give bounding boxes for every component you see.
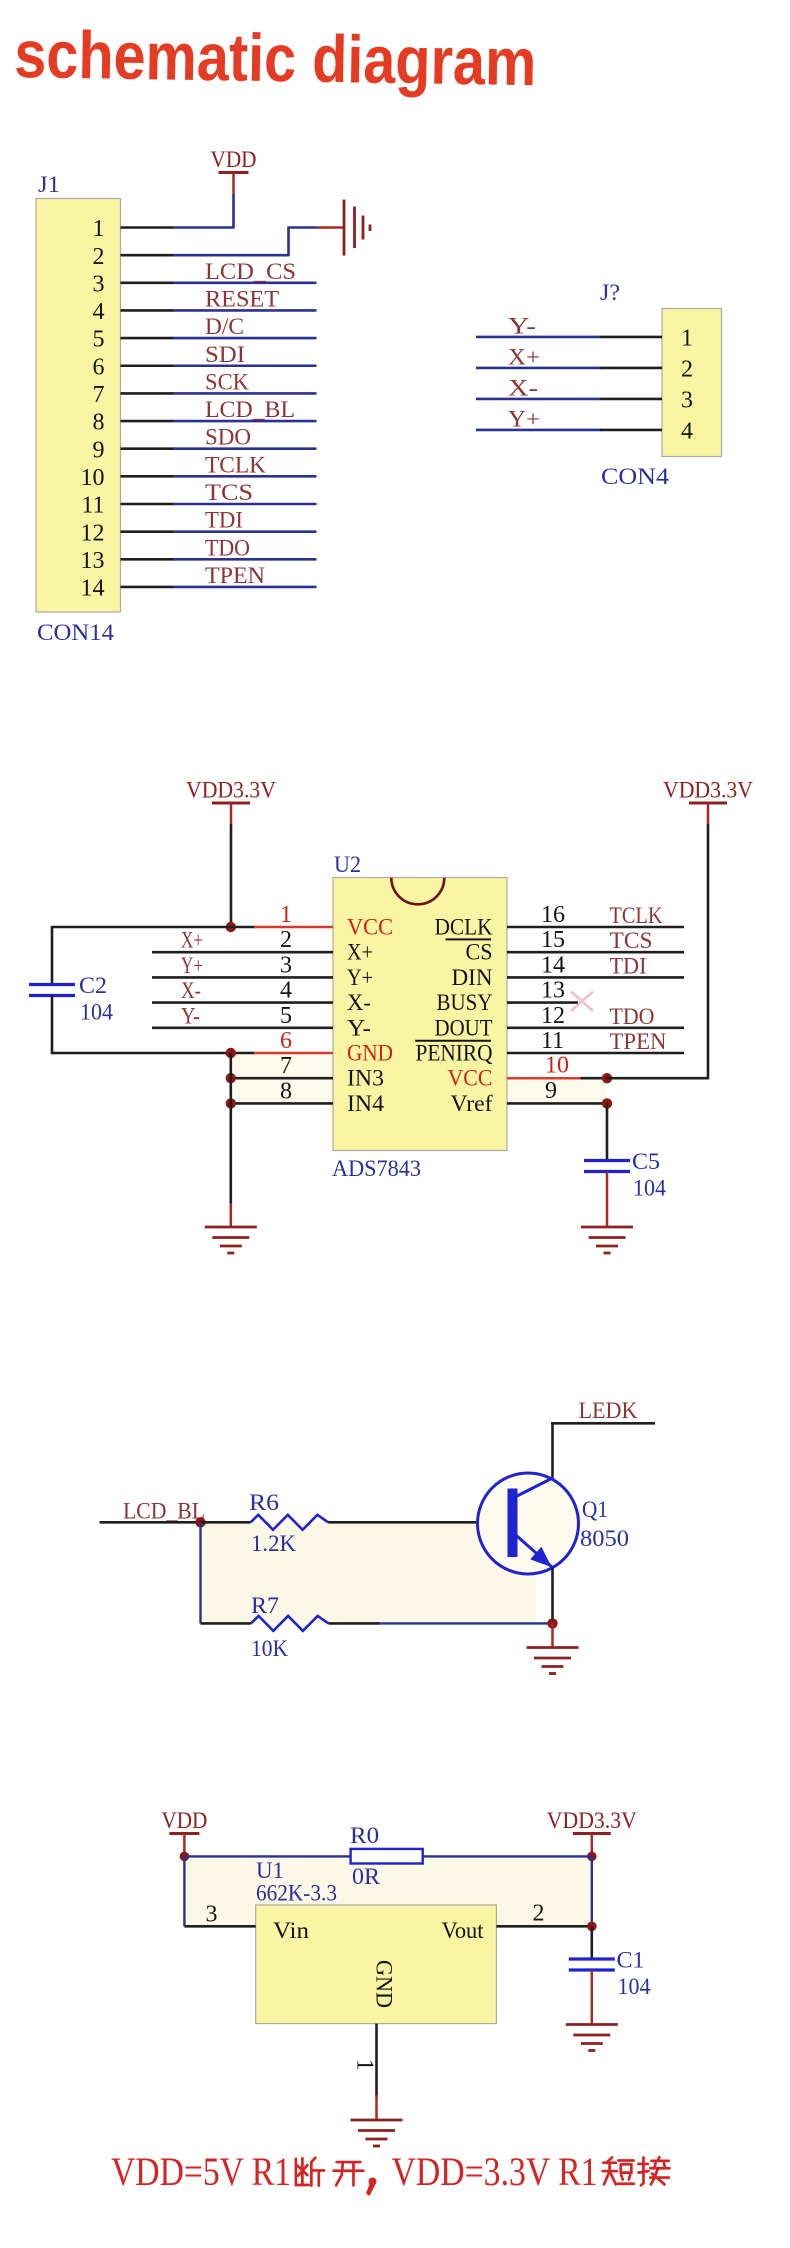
wire J1 pin 2 to ground bbox=[121, 254, 175, 257]
svg-text:7: 7 bbox=[93, 382, 105, 408]
svg-text:1: 1 bbox=[681, 326, 693, 352]
wire J1 pin 6 (SDI) bbox=[121, 364, 175, 367]
power VDD3.3V U1 bbox=[547, 1808, 637, 1855]
wire U2 pin9 Vref bbox=[507, 1102, 607, 1105]
wire top rail to C2 bbox=[52, 926, 231, 929]
wire J1 pin 1 bbox=[121, 226, 175, 229]
wire VDD3.3V left down bbox=[230, 824, 233, 928]
wire IN3/IN4 rail down bbox=[230, 1053, 233, 1206]
wire X- bus to U2 bbox=[152, 1001, 333, 1004]
wire LCD_BL rail down to R7 bbox=[199, 1522, 201, 1623]
svg-text:LCD_CS: LCD_CS bbox=[205, 259, 296, 284]
svg-text:X+: X+ bbox=[508, 344, 540, 369]
svg-text:14: 14 bbox=[81, 576, 105, 602]
wire U2 right pin 12 bbox=[507, 1027, 684, 1030]
node junction emitter/R7 bbox=[547, 1618, 557, 1628]
svg-text:104: 104 bbox=[80, 1000, 113, 1025]
resistor R6 (1.2K) zigzag bbox=[251, 1515, 329, 1530]
wire J1 pin 8 (LCD_BL) bbox=[121, 420, 175, 423]
svg-text:Q1: Q1 bbox=[582, 1497, 608, 1522]
svg-text:10: 10 bbox=[81, 465, 105, 491]
node junction pin8 bbox=[226, 1098, 236, 1108]
svg-text:Y-: Y- bbox=[508, 313, 536, 338]
wire C1 to ground bbox=[591, 1970, 594, 2024]
CS overline bbox=[446, 938, 492, 940]
svg-text:Y-: Y- bbox=[181, 1003, 200, 1028]
svg-text:8: 8 bbox=[93, 410, 105, 436]
wire U2 right pin 11 bbox=[507, 1052, 684, 1055]
svg-text:16: 16 bbox=[541, 902, 565, 928]
svg-text:TDI: TDI bbox=[610, 953, 647, 978]
wire J1 pin 11 (TCS) bbox=[121, 503, 175, 506]
svg-text:Y+: Y+ bbox=[508, 406, 540, 431]
J? pin numbers 1-4 bbox=[681, 326, 693, 445]
svg-text:4: 4 bbox=[93, 299, 105, 325]
svg-text:1: 1 bbox=[93, 216, 105, 242]
svg-text:VCC: VCC bbox=[347, 915, 393, 940]
svg-text:U2: U2 bbox=[334, 852, 361, 877]
svg-text:LEDK: LEDK bbox=[579, 1398, 638, 1423]
svg-text:VDD3.3V: VDD3.3V bbox=[547, 1808, 637, 1833]
svg-text:R0: R0 bbox=[350, 1823, 379, 1848]
wire Vout to C1 bbox=[590, 1926, 593, 1959]
svg-text:13: 13 bbox=[541, 978, 565, 1004]
svg-text:TPEN: TPEN bbox=[610, 1029, 667, 1054]
svg-text:VDD3.3V: VDD3.3V bbox=[186, 778, 276, 803]
node junction pin9 bbox=[602, 1098, 612, 1108]
wire U2 pin7 IN3 bbox=[231, 1077, 333, 1080]
svg-text:GND: GND bbox=[372, 1960, 397, 2008]
node junction VDD3.3V/R0 bbox=[587, 1852, 597, 1862]
svg-text:X-: X- bbox=[181, 978, 201, 1003]
IC U2 body (ADS7843) bbox=[333, 878, 507, 1151]
svg-text:PENIRQ: PENIRQ bbox=[416, 1041, 493, 1066]
svg-text:LCD_BL: LCD_BL bbox=[123, 1499, 205, 1524]
wire Y- bus to U2 bbox=[152, 1027, 333, 1030]
wire rail to R7 bbox=[201, 1622, 251, 1625]
note char jie (connect) bbox=[639, 2157, 670, 2185]
svg-text:R6: R6 bbox=[249, 1490, 279, 1515]
wire U2 pin1 VCC bbox=[231, 926, 255, 929]
svg-text:9: 9 bbox=[93, 437, 105, 463]
power VDD U1 bbox=[161, 1808, 207, 1855]
wire pin10 to VDD rail bbox=[606, 1077, 708, 1080]
wire U1 pin3 Vin bbox=[184, 1925, 255, 1928]
svg-text:1.2K: 1.2K bbox=[251, 1531, 296, 1556]
capacitor C1 104 bbox=[569, 1959, 615, 1970]
U2 pin names right column bbox=[416, 915, 493, 1116]
svg-text:LCD_BL: LCD_BL bbox=[205, 397, 295, 422]
ground (C5) bbox=[581, 1227, 633, 1253]
wire J1 pin 3 (LCD_CS) bbox=[121, 281, 175, 284]
svg-text:TPEN: TPEN bbox=[205, 563, 265, 588]
node junction pin1 bbox=[226, 922, 236, 932]
wire top rail right bbox=[423, 1855, 592, 1857]
ground (Q1) bbox=[527, 1648, 579, 1674]
svg-text:TDO: TDO bbox=[610, 1004, 655, 1029]
wire U1 pin2 Vout bbox=[496, 1925, 591, 1928]
svg-text:6: 6 bbox=[93, 354, 105, 380]
svg-text:10K: 10K bbox=[251, 1636, 288, 1661]
wire J1 pin 13 (TDO) bbox=[121, 558, 175, 561]
svg-text:4: 4 bbox=[280, 978, 292, 1004]
svg-text:schematic diagram: schematic diagram bbox=[14, 17, 537, 100]
svg-text:C2: C2 bbox=[79, 973, 107, 998]
wire Q1 emitter down bbox=[551, 1568, 554, 1625]
svg-text:X+: X+ bbox=[181, 928, 203, 953]
node junction pin6 bbox=[226, 1048, 236, 1058]
svg-text:1: 1 bbox=[280, 902, 292, 928]
wire X+ bus to U2 bbox=[152, 951, 333, 954]
svg-text:RESET: RESET bbox=[205, 286, 279, 311]
wire left rail down bbox=[183, 1856, 185, 1926]
svg-text:5: 5 bbox=[93, 327, 105, 353]
svg-text:1: 1 bbox=[352, 2059, 378, 2071]
highlight band pins 7-8 bbox=[231, 1053, 333, 1103]
svg-text:6: 6 bbox=[280, 1028, 292, 1054]
capacitor C5 104 bbox=[584, 1161, 630, 1172]
wire C5 to ground bbox=[606, 1172, 609, 1228]
svg-text:DIN: DIN bbox=[452, 965, 493, 990]
wire J? pin 2 (X+) bbox=[476, 367, 601, 370]
svg-text:11: 11 bbox=[81, 493, 104, 519]
wire U2 pin10 VCC bbox=[507, 1077, 582, 1080]
svg-text:DCLK: DCLK bbox=[435, 915, 493, 940]
wire J? pin 4 (Y+) bbox=[476, 429, 601, 432]
wire J1 pin 12 (TDI) bbox=[121, 530, 175, 533]
svg-text:VCC: VCC bbox=[448, 1066, 493, 1091]
svg-text:TCS: TCS bbox=[610, 928, 653, 953]
svg-text:11: 11 bbox=[541, 1028, 564, 1054]
svg-text:2: 2 bbox=[681, 357, 693, 383]
svg-text:DOUT: DOUT bbox=[435, 1015, 493, 1040]
wire R7 to emitter node bbox=[328, 1622, 380, 1625]
wire U2 right pin 16 bbox=[507, 926, 684, 929]
wire U2 right pin 15 bbox=[507, 951, 684, 954]
svg-text:J1: J1 bbox=[38, 172, 60, 197]
wire R6 to Q1 base bbox=[328, 1521, 508, 1524]
wire J1 pin 10 (TCLK) bbox=[121, 475, 175, 478]
svg-text:IN3: IN3 bbox=[347, 1066, 384, 1091]
wire VDD to pin 1 bbox=[232, 194, 235, 228]
wire J1 pin 7 (SCK) bbox=[121, 392, 175, 395]
highlight region (Q1 base-emitter loop) bbox=[201, 1523, 537, 1623]
svg-text:104: 104 bbox=[633, 1176, 666, 1201]
svg-text:2: 2 bbox=[280, 927, 292, 953]
svg-text:2: 2 bbox=[93, 244, 105, 270]
svg-text:2: 2 bbox=[533, 1901, 545, 1927]
ground (rotated, J1 pin2) bbox=[344, 200, 370, 256]
node junction pin7 bbox=[226, 1073, 236, 1083]
ground (C1) bbox=[566, 2025, 618, 2051]
svg-text:VDD: VDD bbox=[211, 147, 257, 172]
svg-text:13: 13 bbox=[81, 548, 105, 574]
svg-text:662K-3.3: 662K-3.3 bbox=[256, 1881, 337, 1906]
wire J1 pin 14 (TPEN) bbox=[121, 586, 175, 589]
svg-text:TCLK: TCLK bbox=[610, 903, 663, 928]
wire pin9 to C5 bbox=[606, 1103, 609, 1161]
wire J1 pin 9 (SDO) bbox=[121, 447, 175, 450]
svg-text:CS: CS bbox=[466, 940, 493, 965]
ground (U2 left) bbox=[205, 1227, 257, 1253]
svg-text:3: 3 bbox=[280, 952, 292, 978]
connector J1 box (CON14) bbox=[36, 199, 121, 613]
wire J? pin 1 (Y-) bbox=[476, 336, 601, 339]
IC U1 body (662K-3.3) bbox=[256, 1905, 497, 2024]
svg-text:VDD=3.3V R1: VDD=3.3V R1 bbox=[392, 2149, 598, 2194]
wire Y+ bus to U2 bbox=[152, 976, 333, 979]
wire U2 pin8 IN4 bbox=[231, 1102, 333, 1105]
svg-text:4: 4 bbox=[681, 419, 693, 445]
node junction LCD_BL bbox=[195, 1517, 205, 1527]
wire J? pin 3 (X-) bbox=[476, 398, 601, 401]
node junction Vout/C1 bbox=[587, 1922, 597, 1932]
transistor Q1 8050 (NPN) bbox=[478, 1473, 579, 1574]
svg-text:U1: U1 bbox=[256, 1858, 284, 1883]
wire U2 pin6 GND bbox=[52, 1052, 255, 1055]
svg-text:104: 104 bbox=[618, 1974, 651, 1999]
J1 pin numbers 1-14 bbox=[81, 216, 105, 601]
svg-text:14: 14 bbox=[541, 952, 565, 978]
svg-text:CON4: CON4 bbox=[601, 464, 670, 489]
svg-text:X-: X- bbox=[347, 990, 371, 1015]
svg-text:Y+: Y+ bbox=[181, 953, 203, 978]
svg-text:3: 3 bbox=[93, 271, 105, 297]
note char kai (open) bbox=[334, 2162, 364, 2185]
highlight band pins 9-10 bbox=[507, 1078, 607, 1103]
svg-text:8050: 8050 bbox=[580, 1526, 629, 1551]
svg-text:Y+: Y+ bbox=[347, 965, 373, 990]
svg-text:TCLK: TCLK bbox=[205, 452, 266, 477]
wire U2 right pin 13 bbox=[507, 1001, 578, 1004]
svg-text:VDD3.3V: VDD3.3V bbox=[663, 778, 753, 803]
svg-text:SDO: SDO bbox=[205, 425, 251, 450]
wire emitter node to ground bbox=[551, 1623, 554, 1647]
ground (U1 GND) bbox=[351, 2120, 403, 2146]
svg-text:12: 12 bbox=[541, 1003, 565, 1029]
svg-text:TDI: TDI bbox=[205, 508, 243, 533]
wire top rail left bbox=[184, 1855, 350, 1857]
svg-text:BUSY: BUSY bbox=[437, 990, 493, 1015]
svg-text:J?: J? bbox=[600, 280, 620, 305]
svg-text:Vout: Vout bbox=[442, 1918, 485, 1943]
wire LCD_BL stub bbox=[100, 1521, 202, 1524]
power VDD3.3V right bbox=[663, 778, 753, 825]
svg-text:SDI: SDI bbox=[205, 342, 245, 367]
svg-text:Vref: Vref bbox=[451, 1091, 493, 1116]
wire right rail down bbox=[591, 1856, 593, 1926]
svg-text:15: 15 bbox=[541, 927, 565, 953]
svg-text:D/C: D/C bbox=[205, 314, 244, 339]
svg-text:SCK: SCK bbox=[205, 369, 249, 394]
svg-text:CON14: CON14 bbox=[37, 620, 115, 645]
svg-text:0R: 0R bbox=[352, 1864, 381, 1889]
wire VDD3.3V right rail down bbox=[707, 824, 710, 1079]
note fullwidth comma bbox=[366, 2178, 377, 2197]
svg-text:C1: C1 bbox=[617, 1948, 645, 1973]
power VDD3.3V left bbox=[186, 778, 276, 825]
wire LEDK to Q1 collector bbox=[551, 1423, 554, 1479]
PENIRQ overline bbox=[415, 1040, 491, 1042]
svg-text:3: 3 bbox=[681, 388, 693, 414]
power symbol VDD (J1) bbox=[211, 147, 257, 194]
svg-text:ADS7843: ADS7843 bbox=[332, 1156, 421, 1181]
wire C2 to GND rail bbox=[51, 996, 54, 1055]
svg-text:R7: R7 bbox=[251, 1593, 279, 1618]
wire U1 GND pin down bbox=[375, 2024, 378, 2097]
svg-text:10: 10 bbox=[545, 1053, 569, 1079]
svg-text:IN4: IN4 bbox=[347, 1091, 385, 1116]
note char duan (break) bbox=[296, 2158, 324, 2186]
svg-text:12: 12 bbox=[81, 520, 105, 546]
no-connect X on pin 13 bbox=[571, 992, 593, 1012]
connector J? box (CON4) bbox=[662, 309, 722, 457]
svg-text:Vin: Vin bbox=[273, 1918, 310, 1943]
capacitor C2 104 bbox=[29, 985, 75, 996]
svg-text:5: 5 bbox=[280, 1003, 292, 1029]
note char duan (short) bbox=[603, 2157, 634, 2184]
node junction VDD/R0 bbox=[180, 1852, 190, 1862]
wire J1 pin 4 (RESET) bbox=[121, 309, 175, 312]
node junction pin10 bbox=[602, 1073, 612, 1083]
svg-text:9: 9 bbox=[545, 1078, 557, 1104]
svg-text:3: 3 bbox=[206, 1902, 218, 1928]
wire LEDK stub bbox=[551, 1422, 655, 1425]
svg-text:GND: GND bbox=[347, 1041, 393, 1066]
highlight region (U1 top) bbox=[184, 1857, 591, 1926]
svg-text:X-: X- bbox=[508, 375, 538, 400]
svg-text:8: 8 bbox=[280, 1078, 292, 1104]
resistor R0 (0R) bbox=[351, 1849, 423, 1864]
svg-text:C5: C5 bbox=[632, 1149, 660, 1174]
svg-text:VDD: VDD bbox=[161, 1808, 207, 1833]
wire LCD_BL to R6 bbox=[201, 1521, 251, 1524]
U2 pin names left column bbox=[347, 915, 393, 1116]
svg-text:TDO: TDO bbox=[205, 535, 250, 560]
U2 notch bbox=[391, 878, 444, 904]
svg-text:7: 7 bbox=[280, 1053, 292, 1079]
svg-text:TCS: TCS bbox=[205, 480, 253, 505]
wire J1 pin 5 (D/C) bbox=[121, 337, 175, 340]
svg-text:VDD=5V R1: VDD=5V R1 bbox=[111, 2149, 291, 2194]
svg-text:Y-: Y- bbox=[347, 1015, 371, 1040]
resistor R7 (10K) zigzag bbox=[251, 1616, 329, 1631]
wire U2 right pin 14 bbox=[507, 976, 684, 979]
svg-text:X+: X+ bbox=[347, 940, 373, 965]
